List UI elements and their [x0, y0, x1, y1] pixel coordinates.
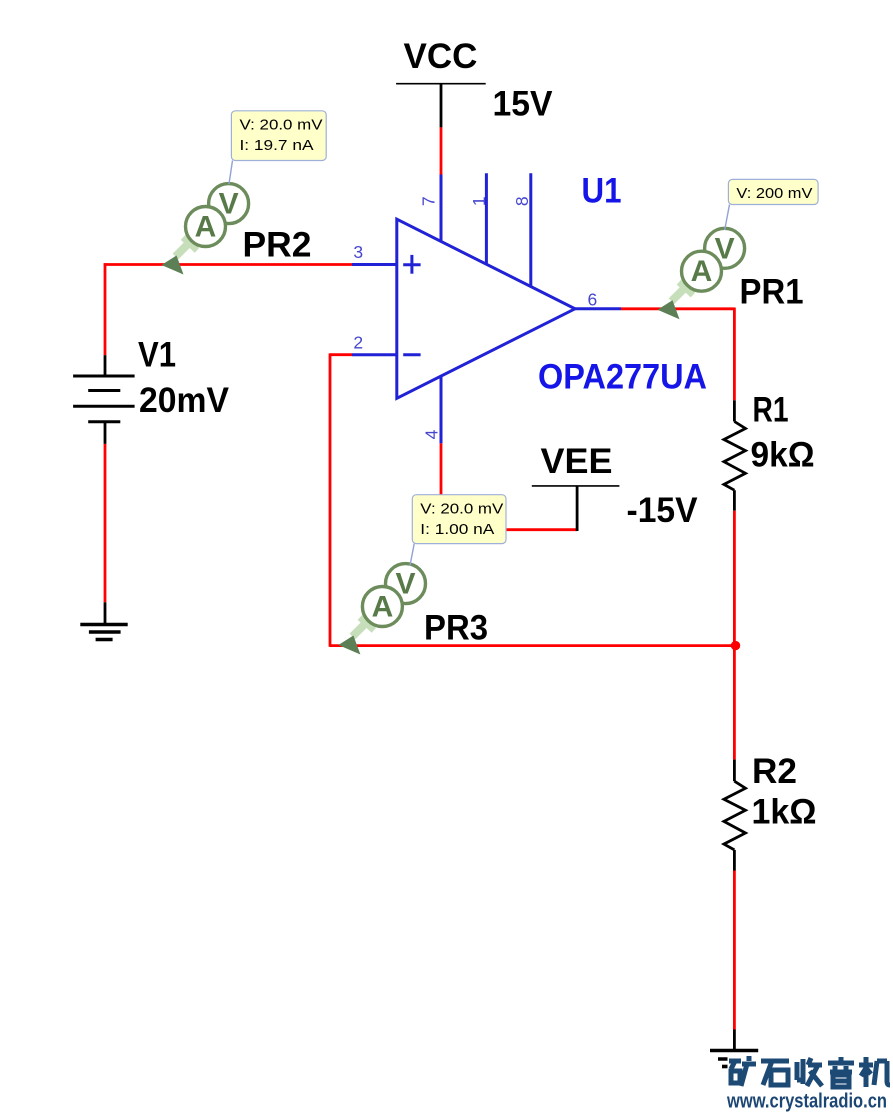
svg-text:V: 200 mV: V: 200 mV: [736, 185, 812, 202]
ground left: [80, 625, 127, 640]
probe PR1 leader: [725, 205, 730, 231]
ground bottom: [710, 1051, 758, 1067]
wire pin 2 feedback: [330, 353, 736, 647]
svg-text:V: 20.0 mV: V: 20.0 mV: [420, 501, 503, 518]
wire output pin 6 to R1: [621, 308, 734, 401]
svg-text:15V: 15V: [493, 85, 554, 124]
svg-text:PR2: PR2: [243, 226, 312, 265]
svg-text:OPA277UA: OPA277UA: [538, 358, 707, 397]
pin 3 stub: [352, 263, 397, 266]
svg-text:1kΩ: 1kΩ: [752, 793, 817, 832]
svg-text:7: 7: [419, 196, 439, 206]
svg-text:6: 6: [588, 290, 598, 310]
svg-text:R2: R2: [752, 752, 797, 791]
svg-text:1: 1: [469, 196, 489, 206]
watermark chinese characters: [729, 1056, 890, 1087]
svg-text:U1: U1: [582, 172, 622, 211]
op-amp U1 triangle: [397, 219, 575, 398]
probe PR3 tooltip: [412, 495, 506, 544]
watermark mask: [728, 1054, 893, 1093]
pin 6 stub: [575, 307, 621, 310]
probe PR3: [338, 564, 425, 655]
pin 4 stub: [440, 376, 443, 444]
wire V1 to ground: [104, 444, 107, 625]
wire R1 to node: [733, 511, 736, 646]
pin 8 stub: [529, 173, 532, 286]
svg-text:R1: R1: [753, 391, 789, 430]
svg-text:I: 19.7 nA: I: 19.7 nA: [240, 137, 314, 154]
probe PR1: [658, 228, 745, 319]
svg-text:PR3: PR3: [424, 609, 488, 648]
svg-text:-15V: -15V: [627, 491, 699, 530]
probe PR2 leader: [229, 161, 233, 185]
wire input to pin 3: [104, 263, 352, 266]
probe PR2 tooltip: [231, 111, 326, 161]
svg-text:V: 20.0 mV: V: 20.0 mV: [240, 117, 323, 134]
node junction: [731, 641, 740, 650]
wire VCC to pin 7: [440, 84, 443, 176]
svg-text:3: 3: [353, 242, 363, 262]
svg-text:2: 2: [353, 333, 363, 353]
probe PR2: [162, 184, 249, 275]
svg-text:I: 1.00 nA: I: 1.00 nA: [420, 521, 494, 538]
pin 1 stub: [485, 173, 488, 264]
power symbol VCC: [396, 37, 486, 84]
pin 7 stub: [440, 175, 443, 242]
svg-text:www.crystalradio.cn: www.crystalradio.cn: [726, 1090, 887, 1113]
wire node to R2: [733, 646, 736, 760]
resistor R1: [724, 400, 746, 510]
resistor R2: [724, 760, 746, 871]
wire V1 top: [104, 263, 107, 355]
power symbol VEE: [532, 442, 620, 531]
probe PR3 leader: [410, 544, 414, 566]
svg-text:4: 4: [422, 429, 442, 439]
wire R2 to ground: [733, 871, 736, 1051]
svg-text:VCC: VCC: [404, 37, 478, 76]
svg-text:V1: V1: [138, 336, 176, 375]
svg-text:20mV: 20mV: [139, 381, 230, 420]
svg-text:VEE: VEE: [541, 442, 613, 481]
svg-text:8: 8: [512, 196, 532, 206]
probe PR1 tooltip: [728, 179, 818, 204]
svg-text:PR1: PR1: [740, 273, 804, 312]
wire pin 4 to VEE: [440, 443, 577, 529]
voltage source V1: [73, 355, 135, 444]
svg-text:9kΩ: 9kΩ: [751, 436, 815, 475]
pin 2 stub: [352, 353, 397, 356]
